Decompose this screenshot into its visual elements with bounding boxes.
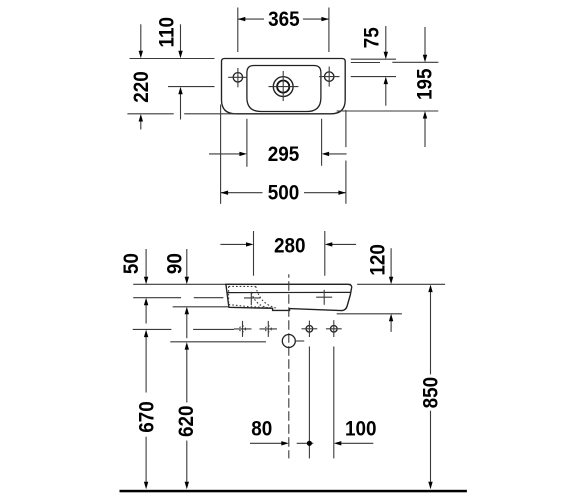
dimension 50 lower line with up arrow — [144, 298, 148, 324]
dimension 295 right extension line — [321, 119, 323, 166]
bowl outline (plan view) — [247, 66, 321, 112]
extension line below overflow hole A — [308, 347, 310, 459]
dimension 620 upper segment with up arrow — [185, 342, 189, 402]
svg-text:850: 850 — [420, 377, 443, 409]
dimension 110 upper line with down arrow — [178, 24, 182, 58]
left tap hole crosshair vertical — [237, 68, 239, 87]
right tap hole crosshair vertical — [328, 67, 330, 87]
top edge extension stub right of basin (plan) — [351, 58, 396, 60]
wall line left of basin (front view) — [133, 283, 351, 285]
dimension 295 left extension line — [246, 119, 248, 167]
dimension 620 lower segment with down arrow — [185, 441, 189, 490]
dimension 500 line right segment with arrow — [304, 191, 346, 195]
second reference stub right of basin (plan) — [351, 62, 380, 64]
dimension 295 left arrow line — [209, 152, 247, 156]
hidden bowl dotted top line (front view) — [229, 285, 256, 287]
central hole crosshair vertical — [282, 71, 284, 101]
bottom edge reference line segment near basin (plan) — [184, 113, 236, 115]
svg-text:295: 295 — [268, 143, 300, 166]
overflow hole circle A (front view) — [302, 321, 318, 337]
svg-text:120: 120 — [366, 244, 389, 276]
floor line — [120, 490, 467, 493]
dimension 365 line right segment with arrow — [303, 17, 329, 21]
dimension 220 upper line with down arrow — [139, 24, 143, 58]
central hole inner circle (plan) — [277, 81, 289, 93]
svg-text:500: 500 — [268, 182, 300, 205]
rim line (front view) — [227, 291, 351, 293]
dimension 120 upper line with down arrow — [389, 248, 393, 284]
left tap hole cross (front view) horizontal — [244, 297, 260, 299]
dimension 500 line left segment with arrow — [221, 191, 263, 195]
dimension 280 right extension line — [324, 231, 326, 276]
basin outline (plan view) — [222, 59, 346, 114]
right tap hole crosshair horizontal — [319, 76, 339, 78]
90 reference line (front view) — [173, 306, 228, 308]
left tap hole cross (front view) vertical — [250, 292, 252, 305]
hidden bowl dotted inner curve (front view) — [252, 293, 271, 308]
drain circle (front view) — [282, 335, 295, 348]
dimension 90 lower line with up arrow — [185, 307, 189, 338]
svg-text:280: 280 — [274, 235, 306, 258]
50 reference line left segment (front view) — [133, 297, 181, 299]
dimension 280 left arrow line — [220, 242, 253, 246]
left tap hole circle (plan) — [233, 73, 242, 82]
dimension 75 lower line with up arrow — [384, 77, 388, 106]
svg-text:110: 110 — [156, 17, 179, 47]
dimension 365 line left segment with arrow — [238, 17, 264, 21]
right tap hole cross (front view) horizontal — [316, 296, 332, 298]
right hole centerline extension right (plan) — [351, 76, 396, 78]
top edge extension line left (plan) — [130, 58, 215, 60]
basin outline (front view) — [226, 284, 352, 310]
dimension 500 right extension line upper segment — [345, 110, 347, 147]
dimension 365 right extension line — [328, 8, 330, 53]
dimension 80 chain dot — [297, 441, 314, 446]
dimension 850 lower segment with down arrow — [428, 411, 432, 490]
50 reference line right segment (front view) — [194, 297, 224, 299]
dimension 195 upper line with down arrow — [423, 27, 427, 62]
dimension 80 arrow line with right arrowhead — [250, 441, 289, 445]
dimension 280 right arrow line — [325, 242, 356, 246]
dimension 100 arrow line with left arrowhead — [334, 441, 374, 445]
hidden bowl dotted right curve (front view) — [256, 286, 278, 308]
dimension 90 upper line with down arrow — [185, 249, 189, 284]
drain circle crosshair right stub — [296, 340, 304, 342]
dimension 850 upper segment with up arrow — [428, 285, 432, 375]
dimension 195 lower line with up arrow — [423, 111, 427, 147]
left tap hole crosshair horizontal — [228, 76, 247, 78]
dimension 670 lower segment with down arrow — [144, 437, 148, 490]
svg-text:90: 90 — [164, 253, 187, 274]
svg-text:365: 365 — [268, 8, 300, 31]
centerline (front view) — [288, 274, 290, 458]
dimension 50 upper line with down arrow — [144, 249, 148, 284]
bottom edge reference line segment far left (plan) — [127, 113, 173, 115]
overflow hole circle B (front view) — [326, 320, 342, 337]
svg-text:620: 620 — [175, 405, 198, 437]
drain reference line (front view) — [170, 341, 266, 343]
dimension 365 left extension line — [237, 8, 239, 53]
hidden bowl dotted bottom line (front view) — [229, 305, 271, 308]
195 bottom reference line (plan) — [337, 110, 439, 112]
dimension 280 left extension line — [253, 231, 255, 276]
dimension 500 left extension line — [220, 105, 222, 204]
central hole crosshair horizontal — [269, 86, 299, 88]
wall line right of basin (front view) — [357, 283, 445, 285]
dimension 110 lower line with up arrow — [178, 87, 182, 120]
svg-text:195: 195 — [414, 69, 437, 101]
svg-text:50: 50 — [120, 253, 143, 274]
right tap hole circle (plan) — [325, 72, 334, 81]
svg-text:100: 100 — [345, 417, 377, 440]
hole centerline extension left (plan) — [168, 86, 215, 88]
svg-text:75: 75 — [360, 27, 383, 48]
dimension 220 lower line with up arrow — [139, 114, 143, 130]
fixing holes reference line left segment (front view) — [133, 328, 172, 330]
dimension 75 upper line with down arrow — [384, 26, 388, 59]
fixing hole cross 2 (front view) — [260, 321, 278, 337]
dimension 670 upper segment with up arrow — [144, 330, 148, 393]
extension line below overflow hole B — [333, 347, 335, 459]
fixing holes reference line right segment (front view) — [193, 328, 234, 330]
fixing hole cross 1 (front view) — [234, 321, 252, 337]
central hole outer circle (plan) — [273, 77, 293, 97]
svg-text:670: 670 — [136, 401, 159, 433]
dimension 120 lower line with up arrow — [389, 314, 393, 332]
dimension 500 right extension line lower segment — [345, 161, 347, 204]
svg-text:80: 80 — [251, 417, 272, 440]
right tap hole cross (front view) vertical — [323, 290, 325, 305]
120 reference line (front view) — [337, 313, 402, 315]
hidden bowl dotted left line (front view) — [228, 286, 230, 304]
dimension 295 right arrow line — [322, 152, 347, 156]
195 top reference line (plan) — [392, 61, 438, 63]
svg-text:220: 220 — [130, 71, 153, 103]
